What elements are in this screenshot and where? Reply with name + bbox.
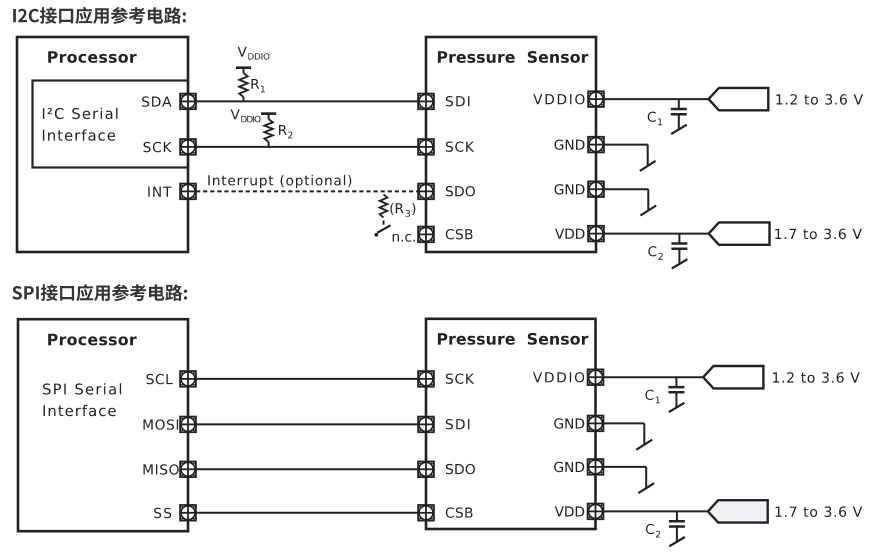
pressure sensor U2 box (426, 37, 596, 252)
wire INT interrupt (dashed) (196, 190, 419, 192)
capacitor C1 (678, 99, 680, 109)
pin GND 2 (555, 184, 585, 194)
title: I2C接口应用参考电路 (13, 7, 186, 24)
pin CSB (418, 227, 434, 243)
ground 1 (spi) (643, 423, 645, 444)
pin MOSI (144, 419, 179, 429)
pin VDDIO (spi) (533, 372, 584, 382)
resistor R3 (optional pull) (380, 194, 388, 217)
wire GND 1 (spi) (596, 422, 645, 424)
pin SDI (418, 94, 434, 110)
wire GND 2 (596, 188, 648, 190)
pin SDO (418, 184, 434, 200)
processor label (48, 51, 137, 63)
capacitor C2 (spi) (676, 511, 678, 521)
supply bar R1 (236, 66, 251, 69)
supply tag 1.7-3.6V (709, 222, 770, 244)
pin VDDIO (533, 94, 584, 104)
wire SDA (188, 100, 426, 102)
n.c. open end (377, 225, 390, 232)
pin SDI (spi sensor) (418, 417, 434, 433)
supply bar R2 (261, 112, 276, 115)
pin SCK (spi sensor) (418, 371, 434, 387)
resistor R1 (243, 68, 245, 73)
wire VDDIO to supply (596, 98, 709, 100)
wire VDDIO to supply (spi) (596, 376, 704, 378)
pin GND 1 (555, 140, 585, 150)
pin VDD (spi) (555, 506, 585, 516)
pin SCK (sensor) (418, 139, 434, 155)
wire SS-CSB (188, 512, 426, 514)
wire VDD to supply (spi) (596, 510, 708, 512)
ground 1 (647, 145, 649, 166)
wire VDD to supply (596, 233, 709, 235)
processor U1 box (17, 37, 188, 252)
pin GND 1 (spi) (554, 418, 584, 428)
pressure sensor label (SPI) (438, 333, 589, 345)
pin SDO (spi sensor) (418, 462, 434, 478)
ground 2 (spi) (645, 467, 647, 488)
I2C serial interface inner box (33, 81, 189, 168)
wire SCL-SCK (188, 378, 426, 380)
ground 2 (647, 189, 649, 210)
resistor R2 (268, 114, 270, 119)
pin GND 2 (spi) (554, 462, 584, 472)
supply tag 1.2-3.6V (spi) (703, 366, 763, 388)
pin CSB (spi sensor) (418, 505, 434, 521)
title: SPI接口应用参考电路 (12, 284, 187, 301)
capacitor C1 (spi) (675, 377, 677, 387)
pin INT (148, 187, 171, 197)
wire MISO-SDO (188, 468, 426, 470)
pressure sensor label (438, 51, 589, 63)
wire GND 2 (spi) (596, 466, 647, 468)
wire MOSI-SDI (188, 423, 426, 425)
supply tag 1.2-3.6V (709, 88, 769, 110)
capacitor C2 (678, 234, 680, 244)
processor label (SPI) (48, 334, 137, 346)
pin SDA (142, 96, 171, 106)
pin SS (154, 508, 171, 518)
wire GND 1 (596, 144, 648, 146)
processor U3 box (18, 319, 188, 531)
pin SCL (147, 374, 173, 384)
label Interrupt (optional) (208, 175, 351, 188)
pin VDD (555, 229, 585, 239)
VDDIO supply label 1 (238, 47, 247, 57)
supply tag 1.7-3.6V (spi) (708, 500, 768, 522)
wire SCK (188, 146, 426, 148)
pressure sensor U4 box (426, 319, 596, 529)
VDDIO supply label 2 (231, 109, 240, 119)
pin SCK (144, 142, 172, 152)
pin MISO (144, 464, 179, 474)
